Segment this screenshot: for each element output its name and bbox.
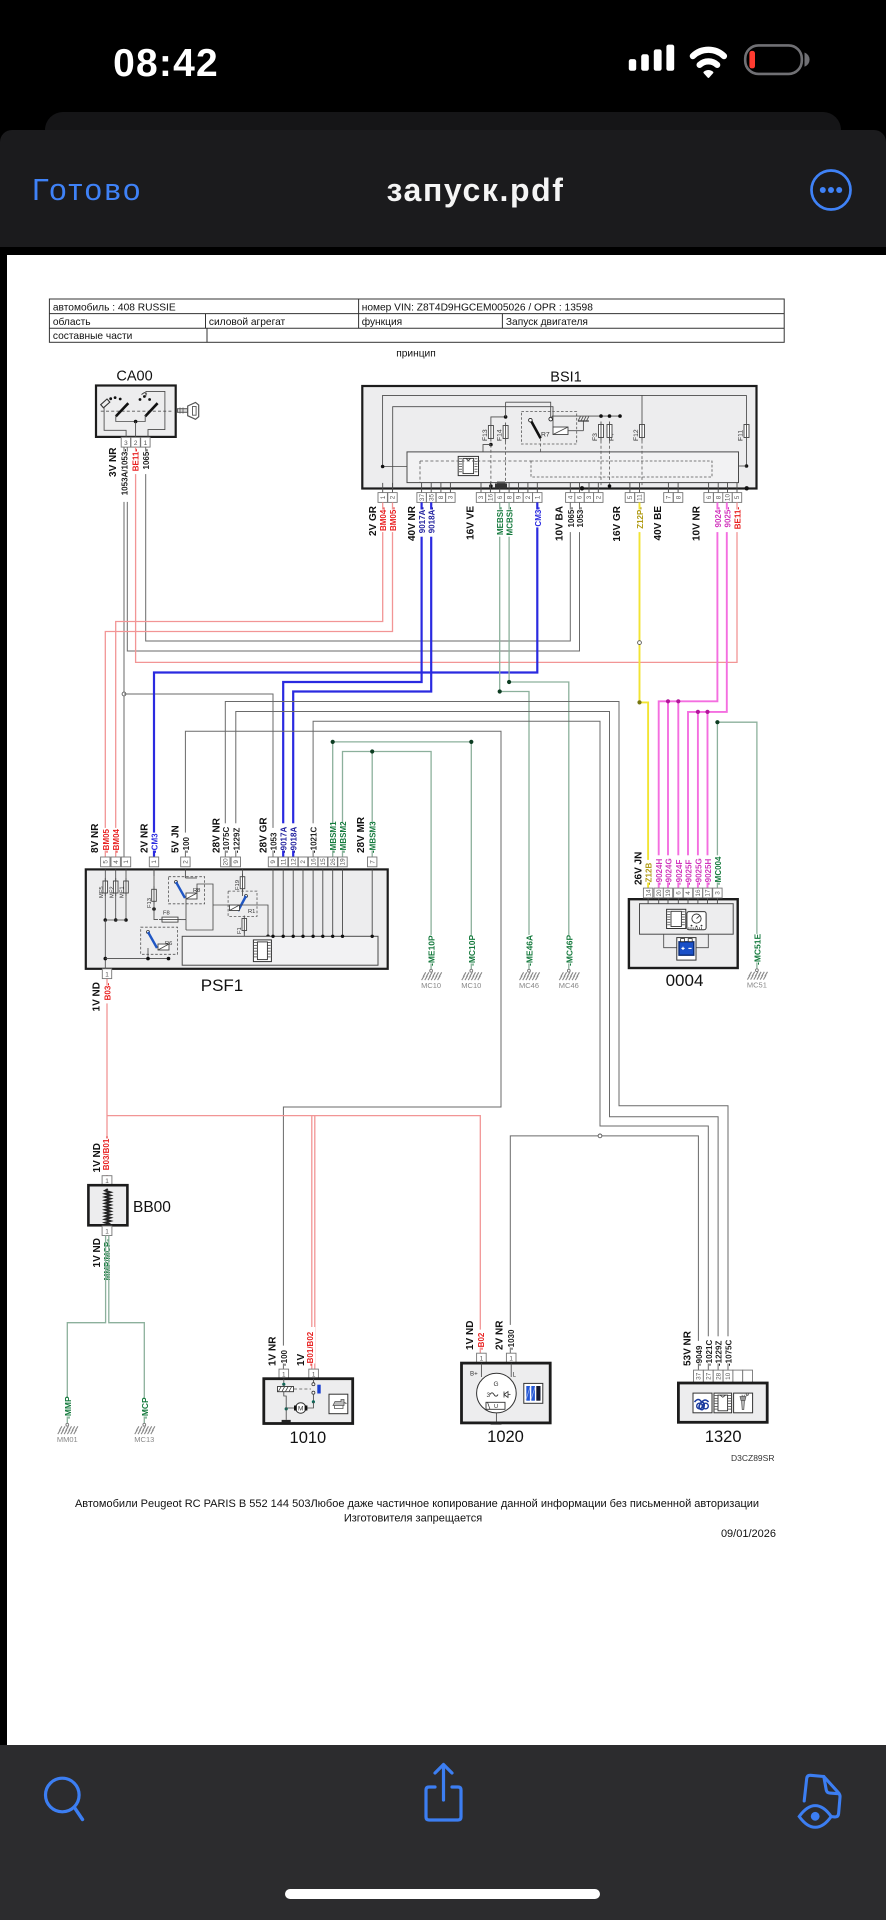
svg-text:7: 7	[369, 860, 376, 864]
svg-text:1: 1	[123, 860, 130, 864]
svg-text:MMP/MCP-: MMP/MCP-	[103, 1239, 112, 1281]
wire B03 (PSF1 to BB00)	[106, 979, 108, 1176]
svg-text:1: 1	[312, 1371, 316, 1378]
BSI1 bottom connector strip element	[495, 484, 507, 489]
svg-text:1: 1	[105, 971, 109, 978]
svg-text:M: M	[298, 1406, 303, 1413]
svg-text:9024-: 9024-	[714, 507, 723, 528]
key symbol	[177, 402, 198, 419]
search icon	[38, 1770, 94, 1826]
wire 1053 (CA00 pin3 to BSI1 pin6 10VBA)	[127, 447, 579, 651]
1020 generator circle	[470, 1363, 517, 1413]
fuse F13 (BSI1)	[482, 415, 507, 488]
svg-text:-MBSM1: -MBSM1	[329, 821, 338, 853]
svg-text:10V NR: 10V NR	[692, 505, 703, 541]
0004 pin stubs	[648, 898, 717, 904]
svg-text:1V NR: 1V NR	[267, 1336, 278, 1366]
svg-text:-1030: -1030	[507, 1329, 516, 1350]
splice on Z12P	[638, 641, 642, 645]
1010 solenoid	[278, 1379, 312, 1392]
svg-text:-MBSM3: -MBSM3	[369, 821, 378, 853]
svg-text:-9024F: -9024F	[675, 860, 684, 885]
ground ME46A / MC46	[519, 935, 540, 990]
wire 1021C (PSF1 pin16 to 1320 pin27)	[313, 721, 708, 1370]
svg-text:1065-: 1065-	[567, 507, 576, 528]
unit 0004 (engine ECU)	[629, 899, 738, 990]
1010 contact + blue bar	[312, 1379, 321, 1404]
PSF1 internal links	[154, 869, 270, 938]
svg-text:-9018A: -9018A	[290, 827, 299, 853]
BSI1 dashed internals	[420, 461, 712, 483]
svg-text:номер VIN: Z8T4D9HGCEM005026 /: номер VIN: Z8T4D9HGCEM005026 / OPR : 135…	[362, 302, 594, 313]
svg-text:BM04-: BM04-	[379, 507, 388, 531]
svg-text:MC46: MC46	[559, 981, 579, 990]
svg-text:F14: F14	[497, 429, 504, 441]
svg-text:L: L	[513, 1372, 517, 1379]
svg-text:-9049: -9049	[695, 1345, 704, 1366]
svg-text:область: область	[53, 316, 91, 328]
wire 1053A (CA00 pin3 to PSF1)	[123, 447, 125, 857]
connector splice on 1053A	[122, 692, 126, 696]
svg-text:BB00: BB00	[133, 1199, 171, 1216]
svg-text:11: 11	[280, 858, 287, 865]
svg-text:19: 19	[665, 889, 672, 897]
svg-text:-1075C: -1075C	[222, 827, 231, 853]
wire B01/B02 double drop to 1010	[311, 1116, 313, 1370]
svg-text:1: 1	[105, 1228, 109, 1235]
svg-text:9: 9	[516, 495, 523, 499]
svg-text:7: 7	[666, 495, 673, 499]
svg-text:6: 6	[497, 495, 504, 499]
alternator 1020	[462, 1320, 551, 1446]
1020 regulator icon	[524, 1383, 543, 1403]
svg-text:10V BA: 10V BA	[555, 506, 566, 541]
svg-text:2: 2	[134, 440, 138, 447]
svg-text:1: 1	[282, 1371, 286, 1378]
svg-text:35: 35	[428, 494, 435, 502]
svg-text:3V NR: 3V NR	[108, 447, 119, 477]
svg-text:-1229Z: -1229Z	[232, 828, 241, 853]
svg-text:-9024H: -9024H	[655, 859, 664, 885]
svg-text:3: 3	[124, 440, 128, 447]
svg-text:-ME10P: -ME10P	[427, 935, 437, 966]
svg-text:F12: F12	[633, 429, 640, 441]
svg-text:-MC10P: -MC10P	[467, 934, 477, 966]
svg-text:1V ND: 1V ND	[92, 982, 103, 1011]
sheet back card	[45, 112, 841, 152]
wire MBSM3 (PSF1 pin7 joins MBSM2)	[371, 752, 373, 857]
0004 pin row	[643, 888, 722, 898]
0004 labels	[633, 852, 723, 885]
svg-text:16V VE: 16V VE	[466, 506, 477, 540]
svg-text:G: G	[493, 1381, 498, 1388]
svg-text:1053A/1053-: 1053A/1053-	[121, 449, 130, 496]
wire CM3 (BSI1 pin1 to PSF1)	[154, 502, 537, 857]
svg-text:6: 6	[706, 495, 713, 499]
1010 icon box	[329, 1394, 348, 1414]
svg-text:53V NR: 53V NR	[682, 1330, 693, 1366]
PSF1 bottom labels	[92, 982, 113, 1011]
svg-text:-9025H: -9025H	[704, 859, 713, 885]
svg-text:-MC51E: -MC51E	[752, 933, 762, 965]
svg-text:12: 12	[290, 858, 297, 866]
0004 battery symbol	[664, 934, 709, 960]
svg-text:1: 1	[509, 1355, 513, 1362]
injection unit 1320	[678, 1330, 767, 1446]
fuse F3	[592, 422, 604, 487]
svg-text:4: 4	[568, 495, 575, 499]
wire 9024 (BSI1 pin8 to 0004 pins 20,19,6)	[659, 502, 718, 888]
svg-text:составные части: составные части	[53, 331, 132, 342]
svg-text:3: 3	[715, 891, 722, 895]
svg-text:2V NR: 2V NR	[494, 1320, 505, 1350]
svg-text:1: 1	[144, 440, 148, 447]
svg-text:26V JN: 26V JN	[633, 852, 644, 885]
svg-text:-1075C: -1075C	[725, 1340, 734, 1366]
BSI1 internal IC U1	[458, 456, 478, 475]
svg-text:-B01/B02: -B01/B02	[306, 1331, 315, 1366]
svg-text:09/01/2026: 09/01/2026	[721, 1528, 776, 1540]
svg-text:26: 26	[330, 858, 337, 866]
PSF1 fuse F13	[147, 869, 156, 918]
svg-text:MC10: MC10	[461, 981, 481, 990]
svg-text:9: 9	[233, 860, 240, 864]
share icon	[420, 1760, 470, 1824]
svg-text:MC51: MC51	[747, 981, 767, 990]
sheet toolbar	[0, 130, 886, 247]
wire 1030/9049 (1020 to 1320 pin37)	[510, 1136, 698, 1370]
iOS status bar time	[0, 42, 332, 86]
1020 internal ground	[491, 1413, 502, 1425]
svg-text:-MCP: -MCP	[140, 1397, 150, 1419]
BSI1 internal ground	[568, 417, 589, 431]
svg-text:16: 16	[488, 494, 495, 502]
splice on 1030	[598, 1134, 602, 1138]
svg-text:2: 2	[525, 495, 532, 499]
ground MC10P / MC10	[461, 934, 482, 990]
fuse F4	[607, 422, 616, 488]
ground MC51E / MC51	[747, 933, 768, 989]
svg-text:BE11-: BE11-	[131, 449, 140, 472]
Done button	[32, 172, 143, 208]
relay R7	[521, 412, 576, 452]
0004 internal IC	[667, 909, 686, 928]
svg-text:8: 8	[675, 495, 682, 499]
svg-text:9018A-: 9018A-	[428, 507, 437, 534]
ground MCP / MC13	[134, 1397, 155, 1444]
PSF1 internal IC	[253, 940, 271, 962]
svg-text:силовой агрегат: силовой агрегат	[209, 317, 286, 328]
PSF1 pin drop lines	[154, 869, 374, 938]
starter motor 1010	[264, 1327, 353, 1447]
BSI1 pin row	[378, 493, 742, 503]
wire BE11 (CA00 pin2 to BSI1 pin5 10VNR)	[136, 447, 737, 662]
svg-text:R1: R1	[248, 909, 255, 915]
svg-text:5: 5	[102, 860, 109, 864]
PSF1 bottom pin	[102, 969, 111, 979]
svg-text:PSF1: PSF1	[201, 976, 244, 995]
PSF1 relay R6	[141, 927, 178, 960]
svg-text:37: 37	[419, 494, 426, 502]
svg-text:CM3-: CM3-	[534, 507, 543, 527]
svg-text:MC13: MC13	[134, 1435, 154, 1444]
svg-text:MCBSI-: MCBSI-	[506, 507, 515, 536]
svg-text:-BM04: -BM04	[112, 828, 121, 853]
fuse F11	[738, 395, 750, 467]
svg-text:Изготовителя запрещается: Изготовителя запрещается	[344, 1513, 482, 1525]
status bar icons	[615, 30, 830, 90]
svg-text:-Z12B: -Z12B	[645, 863, 654, 885]
svg-text:-CM3: -CM3	[151, 833, 160, 853]
svg-text:MEBSI-: MEBSI-	[496, 507, 505, 535]
wire 9025 (BSI1 pin10 to 0004 pins 4,16,17)	[688, 502, 727, 888]
1320 coil icon	[693, 1393, 712, 1413]
svg-text:6: 6	[676, 891, 683, 895]
CA00 pins 3,2,1	[121, 437, 150, 447]
home indicator	[285, 1889, 600, 1899]
BSI1 body control unit	[362, 370, 756, 491]
svg-text:8: 8	[715, 495, 722, 499]
svg-text:40V NR: 40V NR	[407, 505, 418, 541]
svg-text:-9025G: -9025G	[694, 858, 703, 885]
ignition switch CA00	[96, 369, 176, 437]
wire 1075C (PSF1 pin20 to 1320 pin10)	[225, 702, 728, 1371]
svg-text:-9024G: -9024G	[665, 858, 674, 885]
wire 1229Z (PSF1 pin9 to 1320 pin28)	[236, 712, 718, 1371]
PSF1 ECU bar	[182, 936, 378, 965]
svg-text:28: 28	[715, 1372, 722, 1380]
wire MEBSI (BSI1 pin6 to ground ME46A)	[500, 502, 529, 969]
svg-text:-BM05: -BM05	[102, 828, 111, 853]
svg-text:3: 3	[586, 495, 593, 499]
svg-text:2: 2	[183, 860, 190, 864]
svg-text:B+: B+	[470, 1371, 478, 1378]
svg-text:D3CZ89SR: D3CZ89SR	[731, 1453, 774, 1463]
svg-text:9: 9	[270, 860, 277, 864]
markup preview icon	[793, 1765, 855, 1833]
wire 9018A (BSI1 pin35 to PSF1 pin12)	[293, 502, 431, 857]
PSF1 top labels	[90, 816, 378, 853]
svg-text:2V GR: 2V GR	[368, 505, 379, 536]
svg-text:-MMP: -MMP	[63, 1396, 73, 1419]
PSF1 fuse F19	[235, 869, 245, 896]
svg-text:1: 1	[480, 1355, 484, 1362]
svg-text:20: 20	[656, 889, 663, 897]
ground ME10P / MC10	[421, 935, 442, 990]
bottom toolbar	[0, 1745, 886, 1920]
wire MC004 (0004 pin3 to ground MC51E)	[717, 722, 757, 969]
svg-text:27: 27	[705, 1372, 712, 1380]
svg-text:-100: -100	[182, 836, 191, 853]
wire 100 (PSF1 pin2 to 1010 pin1)	[185, 731, 501, 1369]
ground MMP / MM01	[57, 1396, 78, 1444]
BSI1 mid rail with fuses F3 F4	[552, 414, 622, 419]
svg-text:9025-: 9025-	[723, 507, 732, 528]
svg-text:5: 5	[734, 495, 741, 499]
svg-text:-100: -100	[280, 1349, 289, 1366]
svg-text:5: 5	[627, 495, 634, 499]
svg-text:1065-: 1065-	[142, 449, 151, 470]
CA00 wire labels	[108, 447, 151, 502]
svg-text:B03-: B03-	[104, 983, 113, 1001]
PSF1 relay R8	[169, 877, 214, 930]
svg-text:4: 4	[113, 860, 120, 864]
svg-text:2: 2	[596, 495, 603, 499]
svg-text:37: 37	[696, 1372, 703, 1380]
svg-text:6: 6	[577, 495, 584, 499]
wire MCBSI (BSI1 pin8 to ground MC46P)	[509, 502, 569, 969]
svg-text:4: 4	[685, 891, 692, 895]
svg-text:-MC46P: -MC46P	[564, 934, 574, 966]
wire 1053 branch to PSF1 pin9	[124, 694, 273, 857]
svg-text:1V ND: 1V ND	[92, 1238, 103, 1267]
svg-text:1010: 1010	[290, 1429, 327, 1447]
svg-text:-9017A: -9017A	[280, 827, 289, 853]
svg-text:1053-: 1053-	[576, 507, 585, 528]
0004 internal gauge	[687, 912, 706, 930]
BSI1 wire labels	[368, 505, 743, 541]
wire MBSM2 (PSF1 pin19 to ground ME10P)	[343, 752, 432, 970]
svg-text:1320: 1320	[705, 1428, 742, 1446]
BSI1 top rail	[506, 402, 551, 417]
wire MBSM1 (PSF1 pin26 to ground MC10P)	[333, 742, 472, 970]
svg-text:-MBSM2: -MBSM2	[339, 821, 348, 853]
wire Z12P (BSI1 pin11 to 0004 pin14)	[640, 502, 649, 888]
PSF1 maxi fuses MF5 MF2 MF1	[99, 869, 170, 968]
svg-text:MC46: MC46	[519, 981, 539, 990]
svg-text:28V MR: 28V MR	[356, 816, 367, 853]
svg-text:15: 15	[320, 858, 327, 866]
svg-text:0004: 0004	[666, 971, 704, 990]
svg-text:F8: F8	[163, 911, 170, 917]
svg-text:-1021C: -1021C	[310, 827, 319, 853]
svg-text:1: 1	[380, 495, 387, 499]
svg-text:B03/B01-: B03/B01-	[102, 1136, 111, 1171]
wire MMP/MCP double	[67, 1236, 105, 1424]
svg-text:-1021C: -1021C	[705, 1340, 714, 1366]
svg-text:автомобиль : 408 RUSSIE: автомобиль : 408 RUSSIE	[53, 301, 176, 313]
wire BM04 (BSI1 to PSF1 pin4)	[116, 502, 383, 857]
fuse F12	[633, 395, 645, 486]
1010 motor M1	[284, 1392, 314, 1420]
svg-text:принцип: принцип	[396, 349, 436, 360]
PSF1 relay R1	[228, 891, 257, 916]
1320 injector icon	[734, 1393, 753, 1413]
wire B01/B02 branch	[107, 1116, 480, 1354]
svg-text:2: 2	[300, 860, 307, 864]
svg-text:-ME46A: -ME46A	[525, 935, 535, 966]
svg-text:Запуск двигателя: Запуск двигателя	[506, 317, 588, 328]
svg-text:20: 20	[222, 858, 229, 866]
svg-text:2: 2	[390, 495, 397, 499]
svg-text:16: 16	[695, 889, 702, 897]
1320 IC icon	[714, 1393, 732, 1413]
svg-text:Z12P-: Z12P-	[636, 507, 645, 529]
header table	[49, 299, 784, 342]
svg-text:-MC004: -MC004	[714, 856, 723, 885]
svg-text:10: 10	[725, 494, 732, 502]
more button	[809, 168, 853, 212]
svg-text:28V GR: 28V GR	[259, 817, 270, 853]
svg-text:BM05-: BM05-	[389, 507, 398, 531]
BSI1 pin stubs	[383, 483, 737, 493]
PSF1 engine fuse box	[86, 869, 388, 995]
svg-text:BE11-: BE11-	[734, 507, 743, 530]
svg-text:1020: 1020	[487, 1428, 524, 1446]
svg-text:R7: R7	[541, 432, 550, 439]
svg-text:Автомобили Peugeot RC PARIS B: Автомобили Peugeot RC PARIS B 552 144 50…	[75, 1498, 759, 1510]
svg-text:-B02: -B02	[477, 1332, 486, 1350]
svg-text:8: 8	[438, 495, 445, 499]
svg-text:U: U	[494, 1404, 498, 1410]
svg-text:F3: F3	[592, 433, 599, 441]
svg-text:16: 16	[310, 858, 317, 866]
ground MC46P / MC46	[559, 934, 580, 990]
white PDF page	[7, 255, 886, 1745]
svg-text:17: 17	[705, 889, 712, 897]
svg-text:8: 8	[506, 495, 513, 499]
svg-text:3: 3	[478, 495, 485, 499]
1010 internal ground	[282, 1420, 291, 1423]
BB00 battery junction	[88, 1136, 171, 1236]
title	[0, 172, 886, 209]
wire 9017A (BSI1 pin37 to PSF1 pin11)	[283, 502, 421, 857]
svg-text:19: 19	[340, 858, 347, 866]
svg-text:3: 3	[448, 495, 455, 499]
svg-text:MM01: MM01	[57, 1435, 78, 1444]
svg-text:14: 14	[645, 889, 652, 897]
svg-text:-9025F: -9025F	[685, 860, 694, 885]
PSF1 fuse F8	[154, 911, 186, 923]
fuse F14 (BSI1)	[497, 402, 509, 486]
svg-text:1: 1	[535, 495, 542, 499]
svg-text:8V NR: 8V NR	[90, 823, 101, 853]
svg-text:11: 11	[637, 494, 644, 501]
wire BM05 (BSI1 to PSF1 pin5)	[105, 502, 392, 857]
svg-text:40V BE: 40V BE	[653, 506, 664, 541]
svg-text:-1229Z: -1229Z	[715, 1341, 724, 1366]
svg-text:3: 3	[487, 1392, 491, 1399]
svg-text:9017A-: 9017A-	[418, 507, 427, 534]
svg-text:CA00: CA00	[116, 369, 152, 385]
svg-text:1V ND: 1V ND	[465, 1321, 476, 1350]
svg-text:1: 1	[151, 860, 158, 864]
svg-text:10: 10	[725, 1372, 732, 1380]
svg-text:функция: функция	[362, 316, 403, 328]
svg-text:2V NR: 2V NR	[140, 823, 151, 853]
svg-text:BSI1: BSI1	[550, 370, 581, 386]
svg-text:-1053: -1053	[270, 832, 279, 853]
BB00 bottom labels	[92, 1238, 112, 1280]
svg-text:5V JN: 5V JN	[170, 825, 181, 853]
PSF1 top pin row	[101, 857, 377, 867]
svg-text:F11: F11	[738, 430, 745, 441]
svg-text:16V GR: 16V GR	[612, 505, 623, 541]
svg-text:MC10: MC10	[421, 981, 441, 990]
PSF1 fuse F1	[237, 916, 247, 937]
wire 1065 (CA00 pin1 to BSI1 pin4)	[146, 447, 571, 641]
